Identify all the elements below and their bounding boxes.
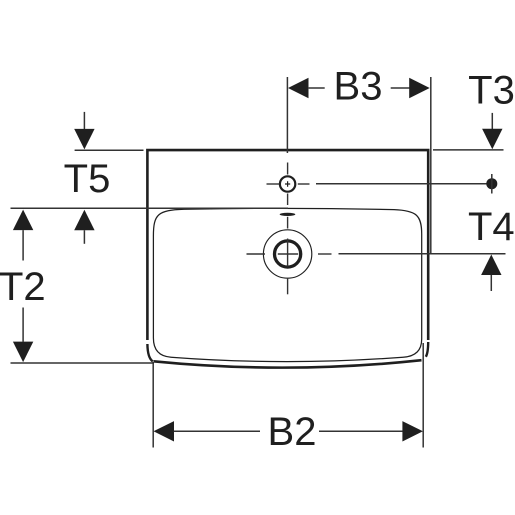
T4 arrow tail xyxy=(490,275,492,291)
tap hole centerline horizontal (left) xyxy=(267,183,280,185)
inner bowl outline xyxy=(153,208,421,361)
drain centerline horizontal through circle xyxy=(278,253,298,255)
T3 arrow (down) xyxy=(482,129,502,150)
tap hole circle xyxy=(280,176,295,191)
svg-text:T2: T2 xyxy=(0,265,46,309)
B2 extension line right xyxy=(422,343,424,448)
overflow slot xyxy=(280,213,296,216)
svg-text:T5: T5 xyxy=(64,157,111,201)
tap hole centerline vertical (below circle) xyxy=(287,194,289,206)
drain outer circle xyxy=(263,230,311,278)
B2 extension line left xyxy=(152,362,154,448)
B2 arrow left xyxy=(154,421,175,441)
B3 dimension line left segment xyxy=(309,87,325,89)
tap hole centerline vertical (above circle) xyxy=(287,163,289,175)
T5 arrow tail bottom xyxy=(83,230,85,244)
T5 arrow tail top xyxy=(83,112,85,129)
drain centerline horizontal dash right xyxy=(318,253,332,255)
T2 dimension line lower xyxy=(22,308,24,342)
T3 dot terminator xyxy=(486,178,497,189)
drain centerline vertical (below circle) xyxy=(287,278,289,295)
T4 arrow (up) xyxy=(481,255,501,276)
T5 arrow (down) xyxy=(74,129,94,150)
T2 bottom extension line xyxy=(11,362,155,364)
tap hole centerline horizontal (right) xyxy=(298,183,310,185)
B2 arrow right xyxy=(402,421,423,441)
T2 arrow (down) xyxy=(13,342,33,363)
svg-text:T3: T3 xyxy=(468,69,515,113)
T3 dot crossing line xyxy=(491,174,493,194)
T2 dimension line upper xyxy=(22,230,24,260)
svg-text:B2: B2 xyxy=(268,410,317,454)
svg-text:T4: T4 xyxy=(468,205,515,249)
washbasin front edge xyxy=(154,360,422,367)
T2 arrow (up) xyxy=(13,210,33,231)
B3 extension line right xyxy=(430,77,432,254)
B3 arrow left xyxy=(288,78,309,98)
washbasin outer left-bottom taper xyxy=(147,344,152,361)
washbasin outer outline top edge xyxy=(147,150,428,340)
B3 arrow right xyxy=(409,78,430,98)
washbasin outer right-bottom taper xyxy=(426,342,428,357)
drain ring xyxy=(275,241,301,267)
drain centerline vertical (through circle) xyxy=(287,239,289,267)
T3 arrow tail xyxy=(491,113,493,130)
tap hole center micro cross xyxy=(285,181,290,186)
svg-text:B3: B3 xyxy=(334,65,383,109)
horizontal reference line at bowl top (T5/T2 datum) xyxy=(11,207,289,209)
B2 dimension line left segment xyxy=(174,430,260,432)
T5 arrow (up) xyxy=(74,210,94,231)
B2 dimension line right segment xyxy=(319,430,403,432)
B3 dimension line right segment xyxy=(391,87,410,89)
tap hole line to T3 dot xyxy=(316,183,490,185)
drain centerline vertical (overflow to circle) xyxy=(287,217,289,229)
T5 extension line (top edge extended left) xyxy=(75,149,144,151)
drain centerline horizontal dash left xyxy=(247,253,266,255)
B3 extension line left (tap centerline) xyxy=(286,77,288,153)
T3 extension line (top edge extended right) xyxy=(433,149,504,151)
drain line to T4 dimension xyxy=(339,253,506,255)
